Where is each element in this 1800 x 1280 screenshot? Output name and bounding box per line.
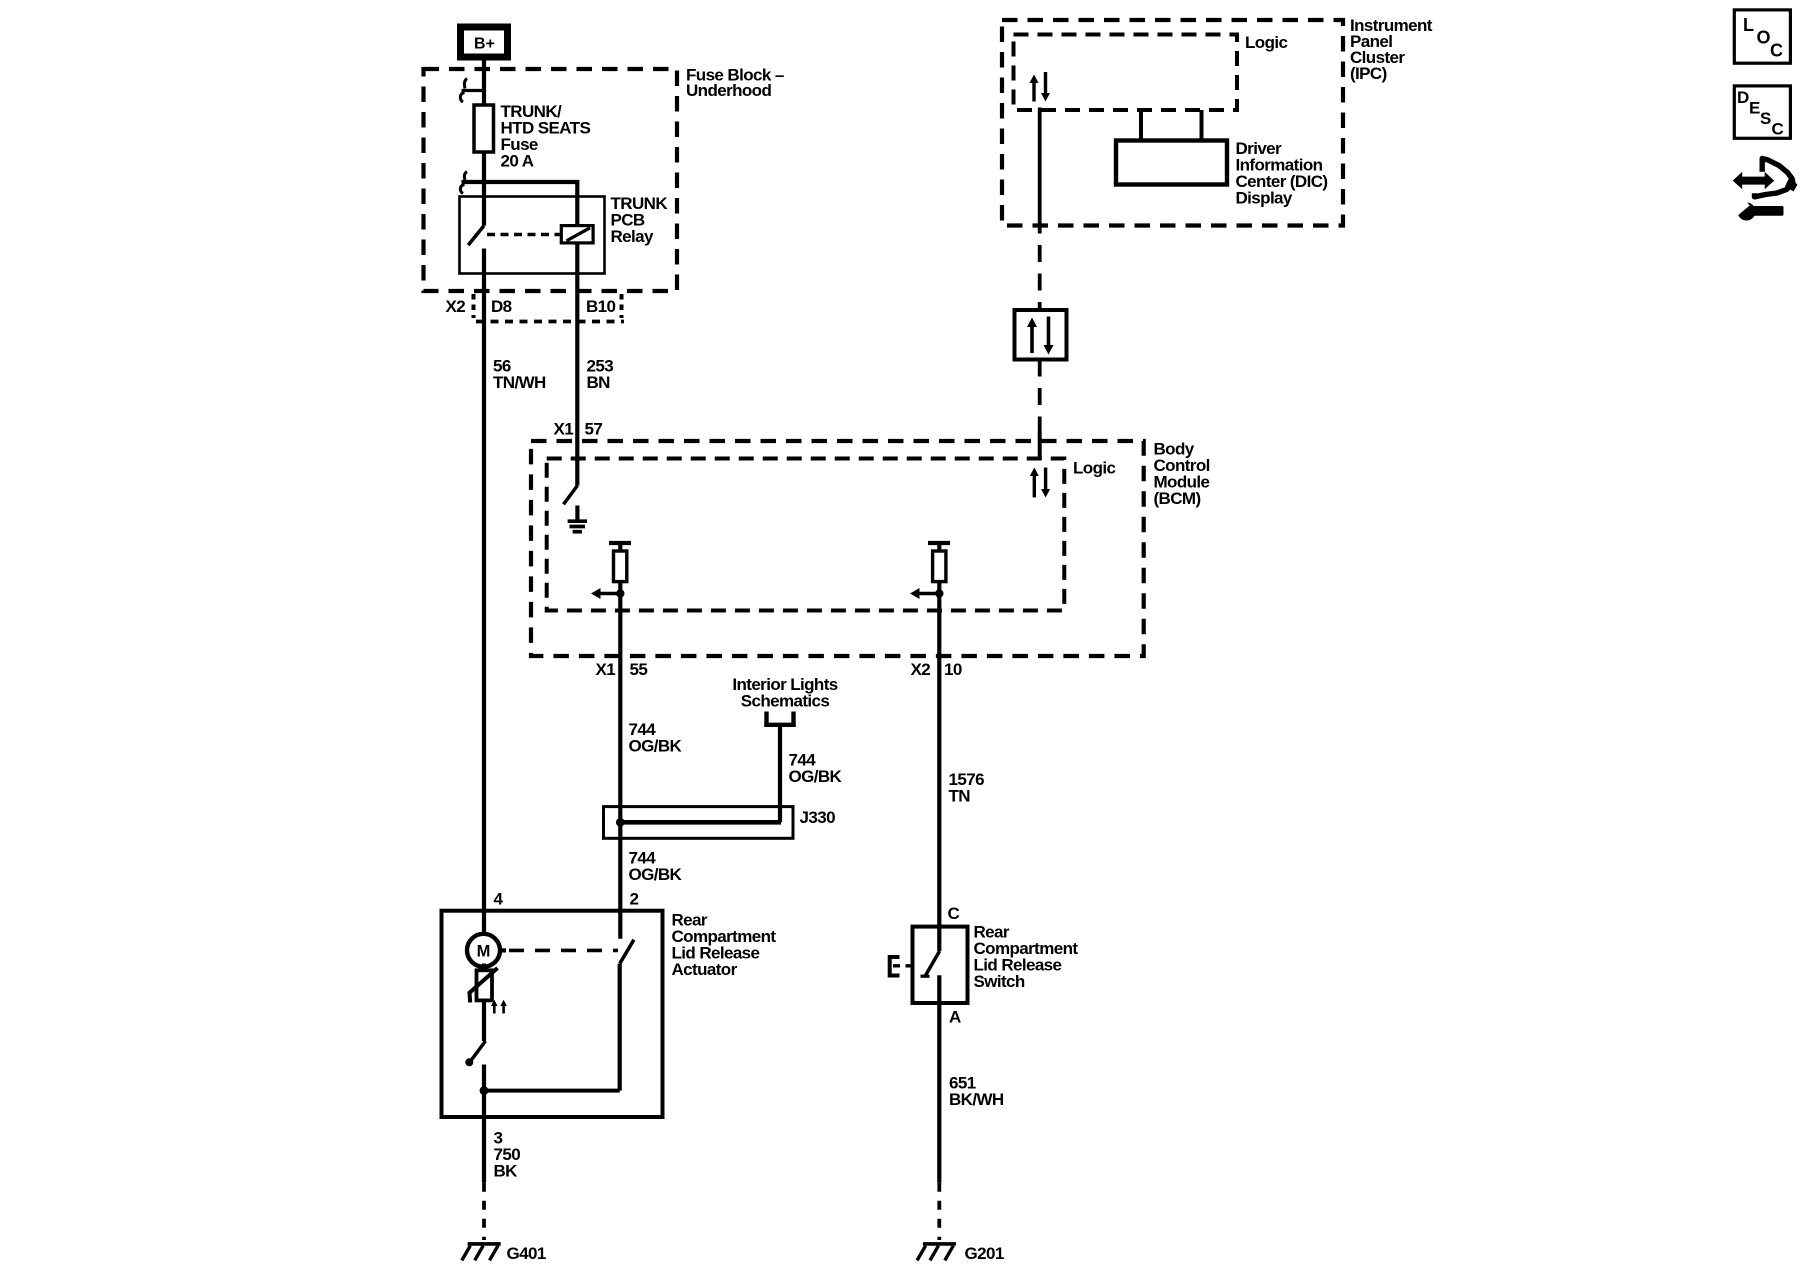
terminal hook above relay xyxy=(460,172,467,194)
actuator lower switch contact dot xyxy=(465,1058,473,1066)
BCM left output arrow xyxy=(591,588,620,599)
wire pin2 lower segment xyxy=(618,964,622,1091)
svg-text:E: E xyxy=(1749,99,1760,118)
svg-text:4: 4 xyxy=(494,890,504,909)
svg-text:57: 57 xyxy=(585,420,603,439)
wire B10 down to BCM xyxy=(575,320,579,486)
wire resistor to node right xyxy=(937,582,941,594)
rear compartment lid release switch box xyxy=(913,927,968,1003)
svg-text:Display: Display xyxy=(1236,189,1293,208)
serial data link box xyxy=(1015,310,1067,360)
wire lower switch to junction xyxy=(482,1065,486,1118)
junction node right pull-up xyxy=(935,589,943,597)
wire actuator to ground solid xyxy=(482,1117,486,1183)
label 750 BK xyxy=(494,1145,521,1181)
BCM pull-up right stub xyxy=(937,543,941,551)
actuator switch blade right xyxy=(620,940,634,964)
label body control module xyxy=(1154,440,1210,509)
motor right stub xyxy=(500,948,506,952)
motor M xyxy=(467,934,500,967)
svg-text:BK/WH: BK/WH xyxy=(949,1090,1004,1109)
BCM pull-up right resistor xyxy=(933,551,946,582)
svg-text:Schematics: Schematics xyxy=(741,692,830,711)
label 744 OG/BK upper xyxy=(629,720,683,756)
label 253 BN xyxy=(587,357,614,393)
relay switch lower stub xyxy=(482,249,486,292)
svg-text:Logic: Logic xyxy=(1073,459,1115,478)
svg-text:C: C xyxy=(948,904,960,923)
svg-text:TN: TN xyxy=(949,787,971,806)
svg-text:C: C xyxy=(1770,41,1783,61)
PTC thermal protector xyxy=(470,968,498,1003)
svg-text:G401: G401 xyxy=(507,1244,546,1263)
wire BCM right output down xyxy=(937,594,941,927)
relay switch blade xyxy=(468,226,484,246)
relay coil xyxy=(561,226,593,243)
svg-text:Underhood: Underhood xyxy=(686,81,771,100)
label driver information center display xyxy=(1236,139,1328,208)
svg-text:OG/BK: OG/BK xyxy=(629,865,683,884)
splice J330 box xyxy=(604,807,794,839)
DIC display box xyxy=(1116,141,1227,185)
off-page reference bracket xyxy=(764,712,796,725)
svg-text:(IPC): (IPC) xyxy=(1350,64,1387,83)
wire IPC logic down xyxy=(1038,108,1042,234)
svg-text:G201: G201 xyxy=(965,1244,1004,1263)
BCM pull-up left stub xyxy=(618,543,622,551)
wire motor to PTC xyxy=(482,964,486,972)
svg-text:L: L xyxy=(1743,15,1754,35)
switch operator E bracket xyxy=(890,957,914,976)
link box up arrow xyxy=(1027,318,1037,354)
BCM pull-up left resistor xyxy=(614,551,627,582)
svg-text:B10: B10 xyxy=(586,297,616,316)
wire coil to B10 xyxy=(575,243,579,320)
label 56 TN/WH xyxy=(493,357,546,393)
wire B+ to fuse xyxy=(482,61,486,106)
svg-text:Relay: Relay xyxy=(611,227,655,246)
connector X2 band xyxy=(474,294,625,322)
svg-text:D8: D8 xyxy=(491,297,512,316)
label 651 BK/WH xyxy=(949,1074,1004,1110)
label interior lights schematics xyxy=(732,675,837,711)
ground G201 xyxy=(917,1244,956,1261)
label fuse block underhood xyxy=(686,66,784,101)
label 744 OG/BK branch xyxy=(789,751,843,787)
fuse TRUNK/HTD SEATS 20A xyxy=(474,102,590,171)
svg-text:X2: X2 xyxy=(911,660,931,679)
wire BCM left output down xyxy=(618,594,622,939)
icon box LOC xyxy=(1734,10,1790,63)
svg-text:C: C xyxy=(1772,120,1784,139)
label X2 10 xyxy=(911,660,962,679)
svg-text:B+: B+ xyxy=(474,36,495,53)
PTC double up arrows xyxy=(491,1000,507,1014)
battery terminal B+ xyxy=(461,27,508,57)
svg-text:S: S xyxy=(1760,109,1771,128)
label rear compartment lid release switch xyxy=(974,923,1079,992)
wire actuator to ground dashed xyxy=(482,1183,486,1240)
junction node actuator xyxy=(480,1086,489,1095)
svg-text:D: D xyxy=(1737,88,1749,107)
DIC display leg left xyxy=(1139,110,1143,141)
IPC up arrow xyxy=(1030,75,1039,102)
svg-text:M: M xyxy=(477,943,491,961)
svg-text:X2: X2 xyxy=(446,297,466,316)
junction node left pull-up xyxy=(616,589,624,597)
splice junction dot xyxy=(616,818,625,827)
label 1576 TN xyxy=(949,770,985,806)
wire switch to ground dashed xyxy=(937,1183,941,1240)
BCM input switch blade xyxy=(564,486,578,505)
svg-text:20 A: 20 A xyxy=(501,152,534,171)
wire relay coil feed xyxy=(462,182,578,226)
label X1 57 xyxy=(554,420,603,439)
dashed serial data wire IPC to link box xyxy=(1038,245,1042,310)
BCM pull-up right T-bar xyxy=(928,541,950,545)
IPC down arrow xyxy=(1041,72,1050,102)
label trunk pcb relay xyxy=(611,194,669,246)
wire fuse to relay xyxy=(482,152,486,226)
actuator dashed link motor to switch xyxy=(509,949,618,953)
label X1 55 xyxy=(596,660,648,679)
svg-text:BK: BK xyxy=(494,1162,519,1181)
svg-text:TN/WH: TN/WH xyxy=(493,373,546,392)
switch blade xyxy=(921,951,940,977)
svg-text:(BCM): (BCM) xyxy=(1154,489,1201,508)
svg-text:Logic: Logic xyxy=(1245,33,1287,52)
label rear compartment lid release actuator xyxy=(672,911,777,980)
BCM down arrow xyxy=(1041,468,1050,498)
relay box TRUNK PCB xyxy=(460,197,605,274)
svg-text:X1: X1 xyxy=(554,420,574,439)
svg-text:55: 55 xyxy=(630,660,648,679)
actuator lower switch blade xyxy=(470,1041,486,1063)
terminal hook above fuse xyxy=(460,79,485,103)
label 744 OG/BK lower xyxy=(629,849,683,885)
dashed serial data wire link box to BCM xyxy=(1038,360,1042,435)
splice bus bar xyxy=(618,820,782,825)
link box down arrow xyxy=(1044,317,1054,355)
fuse block underhood dashed box xyxy=(424,69,678,291)
rear compartment lid release actuator box xyxy=(442,911,663,1117)
serial wire solid at BCM entry xyxy=(1038,433,1042,461)
wire PTC to lower switch xyxy=(482,1000,486,1041)
wire interior lights branch xyxy=(778,725,782,823)
svg-text:X1: X1 xyxy=(596,660,616,679)
label instrument panel cluster xyxy=(1350,16,1433,83)
BCM right output arrow xyxy=(910,588,939,599)
ground G401 xyxy=(462,1244,501,1261)
wire switch lower to A xyxy=(937,975,941,1182)
icon box DESC xyxy=(1734,86,1790,139)
BCM logic dashed box xyxy=(547,459,1065,611)
body control module dashed box xyxy=(531,441,1144,656)
IPC logic dashed box xyxy=(1014,35,1238,111)
svg-text:Switch: Switch xyxy=(974,972,1025,991)
svg-text:OG/BK: OG/BK xyxy=(789,767,843,786)
svg-text:J330: J330 xyxy=(800,808,836,827)
wire junction horizontal xyxy=(484,1089,620,1093)
switch internal wire upper xyxy=(937,927,941,951)
svg-text:2: 2 xyxy=(630,890,639,909)
svg-text:Actuator: Actuator xyxy=(672,960,738,979)
instrument panel cluster dashed box xyxy=(1002,20,1343,226)
icon diagnostic arrows and wrench xyxy=(1733,159,1798,221)
DIC display leg right xyxy=(1200,110,1204,141)
svg-text:O: O xyxy=(1757,28,1771,48)
svg-text:OG/BK: OG/BK xyxy=(629,737,683,756)
svg-text:BN: BN xyxy=(587,373,611,392)
relay actuation dashed link xyxy=(487,233,561,237)
BCM internal ground xyxy=(568,506,587,532)
BCM pull-up left T-bar xyxy=(609,541,631,545)
wire D8 down left branch xyxy=(482,291,486,934)
svg-text:10: 10 xyxy=(944,660,962,679)
BCM up arrow xyxy=(1030,468,1039,498)
svg-text:A: A xyxy=(949,1008,961,1027)
wire resistor to node left xyxy=(618,582,622,594)
